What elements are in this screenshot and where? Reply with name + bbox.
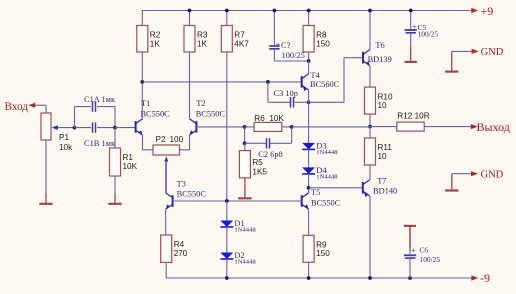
- svg-text:T5: T5: [311, 188, 320, 197]
- ground P1: [39, 193, 52, 204]
- wire C4 bottom down: [273, 49, 275, 61]
- terminal GND2: [471, 169, 504, 180]
- wire D1-D2: [226, 227, 228, 253]
- wire T2 emitter down: [189, 135, 191, 150]
- transistor T7: [363, 176, 397, 197]
- wire fb to output node: [292, 126, 370, 128]
- svg-text:Выход: Выход: [477, 120, 510, 134]
- resistor R1: [110, 148, 138, 176]
- wire R5 top stub: [244, 143, 246, 150]
- junction rail-D2: [225, 276, 229, 280]
- svg-text:T3: T3: [177, 180, 186, 189]
- resistor R12: [397, 112, 430, 132]
- svg-text:R12 10R: R12 10R: [397, 112, 429, 121]
- wire C5 top: [410, 11, 412, 30]
- potentiometer P1: [41, 113, 73, 152]
- svg-text:270: 270: [174, 249, 188, 258]
- svg-text:C?: C?: [281, 41, 291, 50]
- ground GND2: [445, 174, 458, 191]
- wire T4 emitter up: [308, 61, 310, 74]
- wire output to R12: [370, 126, 397, 128]
- wire node to T6 base branch: [309, 101, 344, 103]
- svg-text:10k: 10k: [59, 143, 73, 152]
- wire T2 base to fb node: [196, 126, 244, 128]
- wire C3 right: [294, 101, 309, 103]
- label C3 value: [274, 89, 298, 98]
- label Vhod: [5, 101, 29, 113]
- label C2 value: [258, 150, 282, 159]
- wire bias to D1: [226, 201, 228, 221]
- svg-text:150: 150: [316, 39, 330, 48]
- capacitor C2: [267, 138, 270, 148]
- resistor R2: [137, 26, 161, 53]
- label C1A value: [84, 95, 116, 104]
- resistor R3: [184, 26, 208, 53]
- wire fb node down: [244, 127, 246, 143]
- wire C4 top: [273, 11, 275, 46]
- wire T4 collector down: [308, 90, 310, 143]
- wire T6 emitter down: [369, 66, 371, 87]
- terminal input: [28, 103, 35, 108]
- junction rail-C4: [273, 9, 277, 13]
- junction rail-R7: [225, 9, 229, 13]
- wire +9 rail: [142, 10, 472, 12]
- wire R10 bottom: [369, 114, 371, 127]
- svg-text:C1A 1мк: C1A 1мк: [84, 95, 116, 104]
- wire T2 collector up: [189, 52, 191, 119]
- svg-text:BC550C: BC550C: [196, 109, 226, 118]
- svg-text:100/25: 100/25: [418, 29, 439, 38]
- wire C1A left: [75, 106, 92, 108]
- svg-text:150: 150: [316, 249, 330, 258]
- svg-text:T7: T7: [377, 176, 386, 185]
- svg-text:BD139: BD139: [368, 55, 392, 64]
- terminal +9: [471, 4, 493, 18]
- wire R6 right: [282, 126, 292, 128]
- svg-text:R6 10K: R6 10K: [254, 114, 284, 123]
- wire GND2 horizontal: [452, 173, 471, 175]
- svg-text:10: 10: [378, 101, 388, 110]
- svg-text:BC550C: BC550C: [140, 109, 170, 118]
- svg-text:BC550C: BC550C: [177, 190, 207, 199]
- svg-text:Вход: Вход: [5, 101, 29, 113]
- svg-text:T4: T4: [311, 71, 321, 80]
- svg-text:1N4448: 1N4448: [234, 227, 256, 234]
- wire T7 collector down: [369, 196, 371, 278]
- junction rail-R8: [307, 9, 311, 13]
- wire C3 left: [268, 101, 291, 103]
- wire R7 down to bias: [226, 52, 228, 201]
- diode D1: [220, 219, 256, 234]
- diode D4: [302, 166, 338, 181]
- ground C5: [405, 47, 417, 62]
- resistor R5: [239, 151, 267, 178]
- wire R1 bottom: [114, 176, 116, 193]
- svg-text:1K: 1K: [197, 39, 208, 48]
- svg-text:BD140: BD140: [373, 187, 397, 196]
- resistor R9: [303, 235, 330, 262]
- resistor R11: [365, 138, 393, 165]
- wire C2 right: [270, 142, 292, 144]
- resistor R6: [254, 114, 284, 131]
- wire R3 top: [189, 11, 191, 26]
- svg-text:1N4448: 1N4448: [234, 259, 256, 266]
- terminal -9: [471, 271, 490, 285]
- junction C2-R5: [243, 141, 247, 145]
- wire T1 collector up: [141, 52, 143, 119]
- junction R8-C4-T4: [307, 59, 311, 63]
- wire C5 bottom: [410, 33, 412, 47]
- wire R11 top: [369, 127, 371, 138]
- wire P1 bottom: [45, 140, 47, 193]
- wire C1B to node: [97, 127, 115, 129]
- svg-text:10: 10: [378, 152, 388, 161]
- junction output node: [368, 125, 372, 129]
- junction rail-R9: [307, 276, 311, 280]
- capacitor C5 electrolytic: [405, 22, 439, 38]
- svg-text:1N4448: 1N4448: [316, 173, 338, 180]
- wire P2 left: [143, 149, 154, 151]
- svg-text:T6: T6: [375, 41, 384, 50]
- svg-text:10K: 10K: [123, 162, 138, 171]
- svg-text:R5: R5: [252, 158, 263, 167]
- svg-text:C6: C6: [420, 246, 429, 255]
- wire T3 base line: [173, 200, 302, 202]
- svg-text:4K7: 4K7: [234, 39, 249, 48]
- wire D3-D4: [308, 149, 310, 167]
- wire R12 to terminal: [424, 126, 471, 128]
- wire T7 base: [309, 187, 363, 189]
- wire input horizontal: [35, 104, 46, 106]
- wire P2 right: [180, 149, 190, 151]
- junction fb-R6-C2: [243, 125, 247, 129]
- wire C6 upper: [409, 250, 411, 254]
- capacitor C6 electrolytic: [404, 246, 441, 264]
- capacitor C3: [291, 97, 294, 107]
- junction rail-T6: [368, 9, 372, 13]
- transistor T3: [166, 180, 207, 210]
- junction rail-C6: [408, 276, 412, 280]
- transistor T6: [363, 41, 392, 66]
- wire fb to R6: [245, 126, 255, 128]
- wire T3 collector up: [165, 162, 167, 193]
- wire C1A right: [97, 106, 115, 108]
- svg-text:+9: +9: [481, 4, 494, 18]
- wire R2 top: [141, 11, 143, 26]
- junction rail-R3: [188, 9, 192, 13]
- diode D3: [302, 141, 338, 156]
- svg-text:+: +: [412, 22, 417, 31]
- svg-text:+: +: [276, 40, 281, 49]
- junction bias node: [225, 199, 229, 203]
- potentiometer P2: [153, 135, 184, 161]
- wire C1A down to node: [114, 107, 116, 128]
- diode D2: [220, 251, 256, 266]
- svg-text:P2: P2: [156, 135, 166, 144]
- resistor R8: [303, 26, 330, 53]
- svg-text:GND: GND: [481, 169, 504, 180]
- junction rail-C5: [409, 9, 413, 13]
- wire T6 collector: [369, 11, 371, 51]
- capacitor C4 electrolytic: [269, 40, 305, 60]
- wire input down to P1: [45, 105, 47, 113]
- resistor R4: [161, 235, 188, 262]
- wire C4 to R8 bottom: [274, 60, 308, 62]
- wire D2 to rail: [226, 259, 228, 278]
- wire R4 bottom: [165, 262, 167, 278]
- junction T5 collector-T7 base: [307, 186, 311, 190]
- transistor T5: [302, 188, 341, 209]
- svg-text:1N4448: 1N4448: [316, 149, 338, 156]
- label C1B value: [84, 139, 116, 148]
- transistor T1: [136, 99, 171, 135]
- wire node to T1 base: [115, 127, 136, 129]
- wire R11 bottom: [369, 165, 371, 180]
- transistor T2: [190, 99, 226, 135]
- wire T6 base horizontal: [344, 57, 363, 59]
- wire C2 left: [245, 142, 266, 144]
- ground GND1: [445, 51, 458, 71]
- wire C6 bottom: [409, 258, 411, 278]
- svg-text:1K5: 1K5: [252, 167, 267, 176]
- svg-text:BC560C: BC560C: [310, 80, 340, 89]
- capacitor C1B: [93, 122, 96, 132]
- junction wiper-C1A: [73, 126, 77, 130]
- wire P1 wiper: [58, 127, 75, 129]
- wire R7 top: [226, 11, 228, 26]
- junction C3 branch: [266, 80, 270, 84]
- ground R1: [108, 193, 121, 204]
- svg-text:+: +: [411, 246, 416, 255]
- terminal output: [471, 120, 510, 134]
- svg-text:GND: GND: [481, 47, 504, 58]
- resistor R7: [221, 26, 249, 53]
- wire T3 emitter down: [165, 209, 167, 235]
- wire P2 wiper down: [165, 162, 167, 193]
- svg-text:100: 100: [170, 135, 184, 144]
- svg-text:100/25: 100/25: [420, 255, 441, 264]
- wire D4 to T5 node: [308, 174, 310, 193]
- svg-text:BC550C: BC550C: [311, 198, 341, 207]
- wire node down to R1: [114, 128, 116, 148]
- junction T1 collector: [140, 80, 144, 84]
- junction R6-C2 right: [290, 125, 294, 129]
- wire C2 up to R6 right: [291, 127, 293, 143]
- wire R9 bottom: [308, 262, 310, 278]
- svg-text:1K: 1K: [150, 39, 161, 48]
- note: C6 ground bar drawn above, stem goes down: [409, 226, 411, 250]
- svg-text:T2: T2: [196, 99, 205, 108]
- wire GND1 horizontal: [452, 50, 472, 52]
- svg-text:C1B 1мк: C1B 1мк: [84, 139, 116, 148]
- wire -9 rail: [166, 277, 471, 279]
- ground C6 top: [404, 226, 416, 247]
- wire R8 bottom: [308, 52, 310, 61]
- wire T1 emitter down: [142, 135, 144, 150]
- wire T6 base vertical: [343, 58, 345, 103]
- wire T1 collector to T4 base: [142, 81, 301, 83]
- wire T5 emitter down: [308, 209, 310, 235]
- junction T4 collector-C3: [307, 100, 311, 104]
- junction rail-T7: [368, 276, 372, 280]
- terminal GND1: [472, 47, 504, 58]
- svg-text:-9: -9: [480, 271, 490, 285]
- ground R5: [238, 178, 251, 198]
- transistor T4: [302, 71, 340, 91]
- junction node base T1: [113, 126, 117, 130]
- svg-text:C3 10p: C3 10p: [274, 89, 298, 98]
- resistor R10: [365, 87, 393, 114]
- wire wiper to C1B: [75, 127, 92, 129]
- wire R8 top: [308, 11, 310, 26]
- svg-text:100/25: 100/25: [282, 51, 305, 60]
- svg-text:P1: P1: [59, 133, 69, 142]
- wire C3 branch down: [267, 82, 269, 102]
- wire C1A branch up: [74, 107, 76, 128]
- capacitor C1A: [93, 101, 96, 111]
